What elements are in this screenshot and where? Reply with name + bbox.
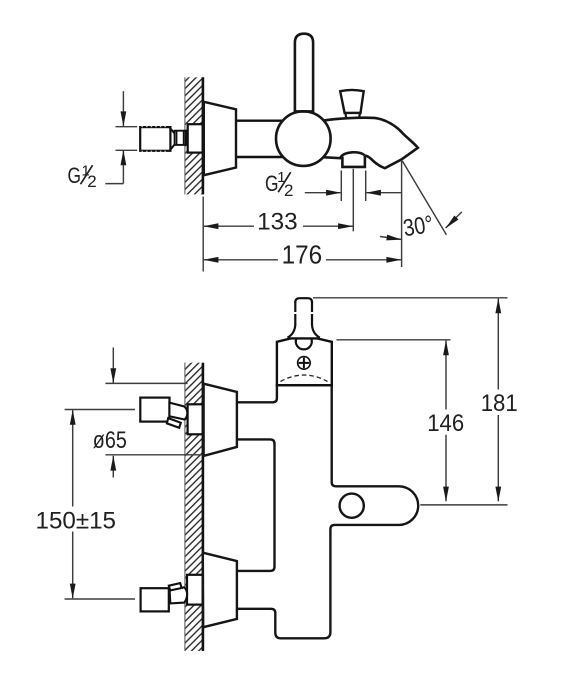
arrowhead 176 left <box>203 257 218 263</box>
common bottom ext line <box>420 504 507 506</box>
dia65 bottom ext line <box>105 454 202 456</box>
notch arc under pipe <box>296 339 312 350</box>
G1/2 second dim lines <box>305 192 341 194</box>
spout body <box>321 118 418 168</box>
svg-text:146: 146 <box>427 410 464 437</box>
30 degree second arrow tail <box>446 212 462 228</box>
arrowhead 146 bottom <box>443 487 449 502</box>
150 ext lines (axes) <box>65 409 135 411</box>
svg-text:176: 176 <box>282 240 323 270</box>
bottom supply eccentric union (front view) <box>141 575 203 612</box>
arrowhead dia65 bottom <box>110 456 116 471</box>
tube from wall to body <box>236 119 284 121</box>
dim 176 line <box>203 259 278 261</box>
handle bottom edge <box>295 110 312 112</box>
146 stems <box>445 341 447 410</box>
wall (hatched section, top view) <box>185 77 203 194</box>
mixer body circle <box>276 111 331 166</box>
shower hose nipple below spout <box>342 156 365 167</box>
wall surface line (top view) <box>202 77 205 194</box>
wall surface line (front view) <box>202 363 205 651</box>
arrowhead 30deg on extension line <box>386 235 402 243</box>
arrowhead 146 top <box>443 340 449 355</box>
arrowhead 181 top <box>495 298 501 313</box>
arrowhead G1/2 lower <box>121 150 127 165</box>
wall union bracket <box>277 338 332 385</box>
dim 133 line <box>203 225 254 227</box>
escutcheon (side view) <box>204 102 236 175</box>
181 stems <box>497 299 499 390</box>
G1/2 left: extension lines <box>116 126 138 128</box>
30 degree slant line <box>402 161 446 235</box>
mixer body (front view) <box>237 385 419 638</box>
knob neck <box>346 113 360 120</box>
text G1/2 (spout) <box>265 169 293 200</box>
150 arrow stems <box>72 410 74 506</box>
diverter knob <box>340 90 364 113</box>
svg-text:150±15: 150±15 <box>36 508 117 535</box>
spout tip extension line <box>401 161 403 267</box>
arrowhead 133 left <box>203 223 218 229</box>
arrowhead G1/2 upper <box>121 111 127 126</box>
arrowhead 150+-15 top <box>70 410 76 425</box>
thread serration (top view connector) <box>142 127 168 152</box>
centre line of hose nipple <box>352 169 354 232</box>
shower hose outlet hole <box>340 494 364 518</box>
threaded riser pipe (dashed) <box>288 298 320 338</box>
arrowhead 30deg on slant line <box>444 215 459 230</box>
wall (hatched section, front view) <box>185 363 203 651</box>
G1/2 left: arrow stems <box>122 91 124 126</box>
hidden escutcheon arc (dashed) <box>281 375 328 382</box>
chamfer cone <box>170 128 175 135</box>
146 ext line <box>337 339 451 341</box>
bump extension lines <box>340 171 342 202</box>
svg-text:181: 181 <box>481 390 518 417</box>
top escutcheon (front view) <box>204 384 237 456</box>
svg-text:133: 133 <box>257 208 298 235</box>
svg-text:ø65: ø65 <box>93 427 127 454</box>
arrowhead G1/2 spout right <box>366 190 381 196</box>
threaded cylinder <box>140 127 170 151</box>
eccentric union S-connector (side view, through wall) <box>140 124 203 152</box>
arrowhead G1/2 spout left <box>326 190 341 196</box>
svg-text:30°: 30° <box>401 211 435 243</box>
181 ext line <box>313 297 508 299</box>
arrowhead 181 bottom <box>495 487 501 502</box>
svg-text:2: 2 <box>284 181 293 200</box>
text G1/2 (left) <box>68 163 97 191</box>
cone seat arc <box>186 131 187 145</box>
svg-text:2: 2 <box>87 172 96 191</box>
dim texts bottom figure <box>36 390 518 535</box>
lever handle <box>295 34 313 112</box>
bottom escutcheon (front view) <box>203 553 237 628</box>
svg-text:G: G <box>68 163 82 188</box>
dia65 top ext line <box>105 382 187 384</box>
top supply eccentric union (front view) <box>140 398 202 435</box>
arrowhead 176 right <box>386 257 401 263</box>
wall fitting <box>188 124 203 152</box>
dia65 arrow stems <box>112 348 114 384</box>
dim texts top figure <box>257 208 435 269</box>
fixing screw <box>298 357 311 370</box>
middle cylinder <box>175 131 186 145</box>
arrowhead 150+-15 bottom <box>70 584 76 599</box>
arrowhead 133 right <box>338 223 353 229</box>
arrowhead dia65 top <box>110 368 116 383</box>
wall extension line below <box>202 197 204 272</box>
